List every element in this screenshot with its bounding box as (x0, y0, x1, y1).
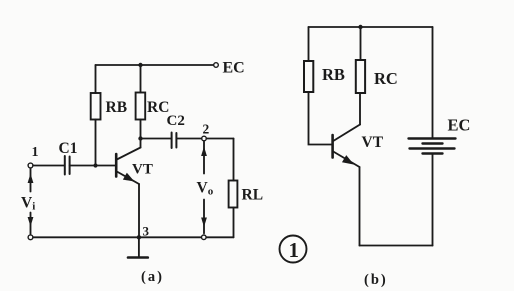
wire: RC top lead (140, 65, 142, 93)
wire: RB top lead circuit b (308, 27, 310, 61)
node 2 terminal circle (202, 136, 207, 141)
arrow Vi polarity (28, 169, 34, 234)
wire: RL bottom lead (233, 208, 235, 238)
wire: RB top lead (95, 65, 97, 93)
wire: RL top lead (233, 139, 235, 181)
resistor RB circuit a (91, 93, 101, 120)
svg-text:VT: VT (362, 134, 384, 151)
svg-text:RB: RB (106, 99, 128, 116)
ground (128, 237, 148, 257)
svg-text:2: 2 (203, 122, 210, 137)
svg-text:RL: RL (242, 187, 264, 204)
node: collector junction dot (138, 136, 142, 140)
wire: input to C1 (33, 165, 64, 167)
svg-text:EC: EC (223, 60, 245, 77)
svg-text:3: 3 (143, 224, 150, 239)
wire: node 2 to RL corner (206, 138, 233, 140)
battery EC (409, 139, 456, 154)
terminal EC circuit a (214, 63, 219, 68)
resistor RL (229, 181, 238, 208)
node: RC top junction dot circuit b (358, 25, 362, 29)
svg-text:C2: C2 (167, 113, 185, 129)
wire: bottom rail circuit b (360, 245, 433, 247)
wire: top rail circuit b (309, 26, 433, 28)
svg-text:(b): (b) (364, 272, 388, 288)
node: base junction dot (93, 163, 97, 167)
node: RC top junction dot (138, 63, 142, 67)
resistor RC circuit a (136, 93, 146, 120)
svg-text:RC: RC (374, 69, 398, 88)
transistor VT circuit a (116, 139, 140, 238)
terminal: bottom left circle (28, 235, 33, 240)
svg-text:C1: C1 (59, 140, 78, 157)
svg-text:VT: VT (132, 162, 153, 178)
resistor RB circuit b (304, 61, 313, 92)
svg-text:1: 1 (289, 238, 300, 262)
wire: RB bottom lead (95, 120, 97, 166)
resistor RC circuit b (356, 60, 365, 93)
arrow Vo polarity (201, 142, 207, 234)
figure number circle 1 (280, 236, 307, 263)
wire: EC top rail circuit a (96, 64, 214, 66)
capacitor C2 (171, 133, 173, 149)
wire: RB bottom lead to base (309, 92, 332, 145)
wire: battery top lead (432, 27, 434, 138)
terminal: bottom output circle (202, 235, 207, 240)
wire: RC top lead circuit b (360, 27, 362, 60)
svg-text:1: 1 (32, 145, 39, 160)
capacitor C1 (64, 156, 66, 175)
wire: C2 to node 2 (176, 138, 201, 140)
svg-text:RB: RB (322, 65, 345, 84)
wire: battery bottom lead (432, 155, 434, 246)
svg-text:EC: EC (448, 116, 471, 135)
transistor VT circuit b (333, 93, 360, 246)
wire: RC bottom lead (140, 120, 142, 139)
wire: bottom rail right segment (206, 236, 233, 238)
terminal 1 input (28, 163, 33, 168)
node 3 junction dot (137, 235, 141, 239)
wire: C1 to base (70, 165, 115, 167)
wire: collector to C2 (141, 138, 171, 140)
svg-text:(a): (a) (141, 269, 164, 285)
wire: bottom rail circuit a (33, 236, 201, 238)
